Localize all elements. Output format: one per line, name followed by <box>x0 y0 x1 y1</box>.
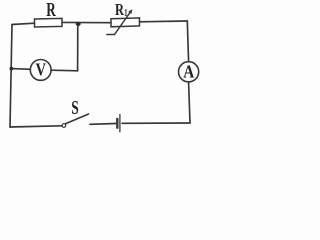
svg-text:R: R <box>46 0 56 21</box>
svg-text:1: 1 <box>124 8 127 19</box>
svg-text:S: S <box>71 98 79 119</box>
svg-text:A: A <box>183 62 194 82</box>
svg-text:V: V <box>35 60 46 80</box>
